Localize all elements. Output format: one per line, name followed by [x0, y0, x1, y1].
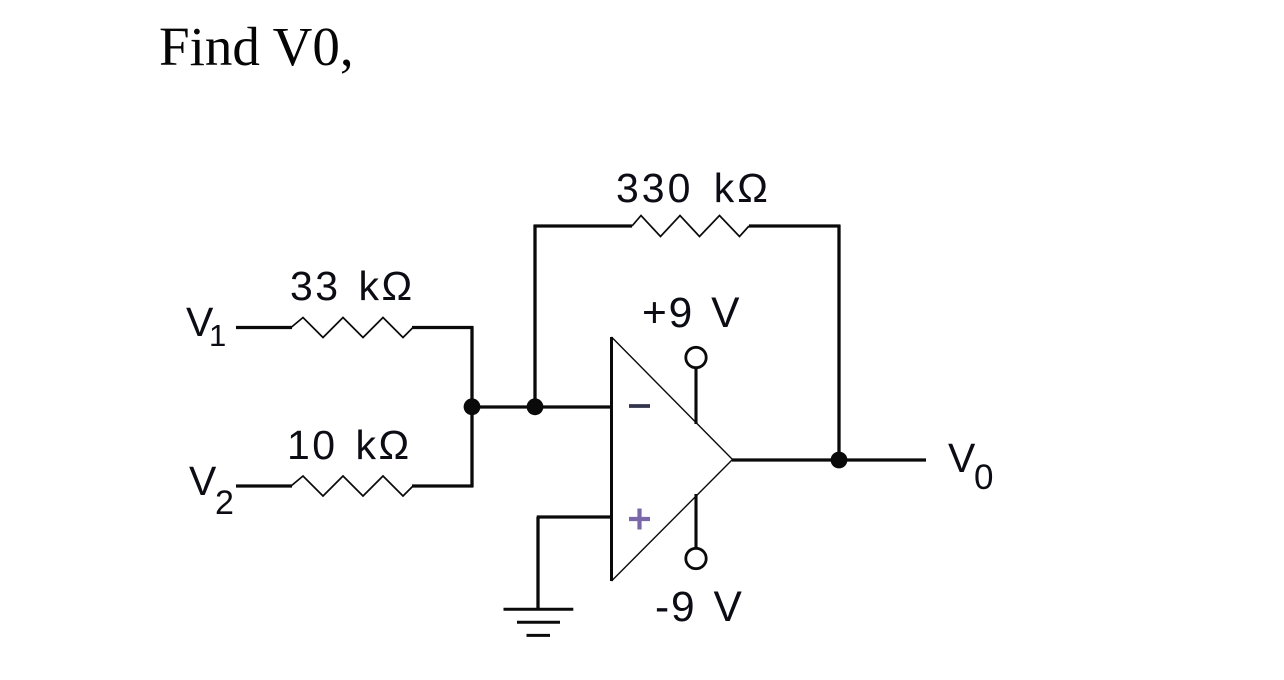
wire op-amp output: [732, 458, 926, 461]
svg-text:Find V0,: Find V0,: [159, 16, 354, 77]
junction node A dot: [464, 398, 481, 415]
junction node B dot (feedback tap): [527, 398, 544, 415]
wire from V2 to R2: [236, 484, 292, 487]
svg-text:V: V: [189, 458, 217, 504]
svg-text:33 kΩ: 33 kΩ: [290, 263, 415, 309]
svg-text:330 kΩ: 330 kΩ: [616, 165, 771, 211]
wire feedback left vertical: [533, 225, 536, 407]
wire summing node to op-amp inverting input: [472, 405, 613, 408]
op-amp inverting input minus sign: [629, 404, 650, 408]
op-amp U1 triangle bottom slant edge: [612, 460, 733, 582]
wire from R2 to node A vertical rise: [412, 484, 473, 487]
positive supply terminal open circle: [686, 347, 706, 367]
negative supply terminal open circle: [686, 548, 706, 568]
svg-text:2: 2: [215, 484, 234, 522]
svg-text:1: 1: [209, 318, 226, 353]
wire from R1 to node A vertical drop: [412, 326, 473, 329]
op-amp U1 triangle left edge: [610, 337, 613, 581]
resistor R3 330k zigzag: [632, 216, 749, 237]
resistor R2 10k zigzag: [291, 476, 413, 496]
wire non-inverting input to ground: [537, 515, 613, 518]
wire feedback top-left segment: [534, 224, 632, 227]
svg-text:0: 0: [974, 458, 993, 497]
junction output node dot: [831, 452, 848, 469]
svg-text:-9 V: -9 V: [655, 584, 744, 631]
resistor R1 33k zigzag: [291, 318, 413, 338]
op-amp non-inverting input plus sign: [629, 517, 650, 521]
wire feedback right vertical: [837, 225, 840, 461]
op-amp U1 triangle top slant edge: [612, 337, 733, 460]
wire feedback top-right segment: [749, 224, 840, 227]
svg-text:+9 V: +9 V: [642, 290, 741, 337]
svg-text:V: V: [948, 435, 976, 481]
svg-text:10 kΩ: 10 kΩ: [287, 422, 412, 468]
positive supply pin wire: [694, 367, 697, 424]
negative supply pin wire: [694, 494, 697, 549]
wire from V1 to R1: [236, 326, 292, 329]
ground symbol: [504, 608, 574, 611]
